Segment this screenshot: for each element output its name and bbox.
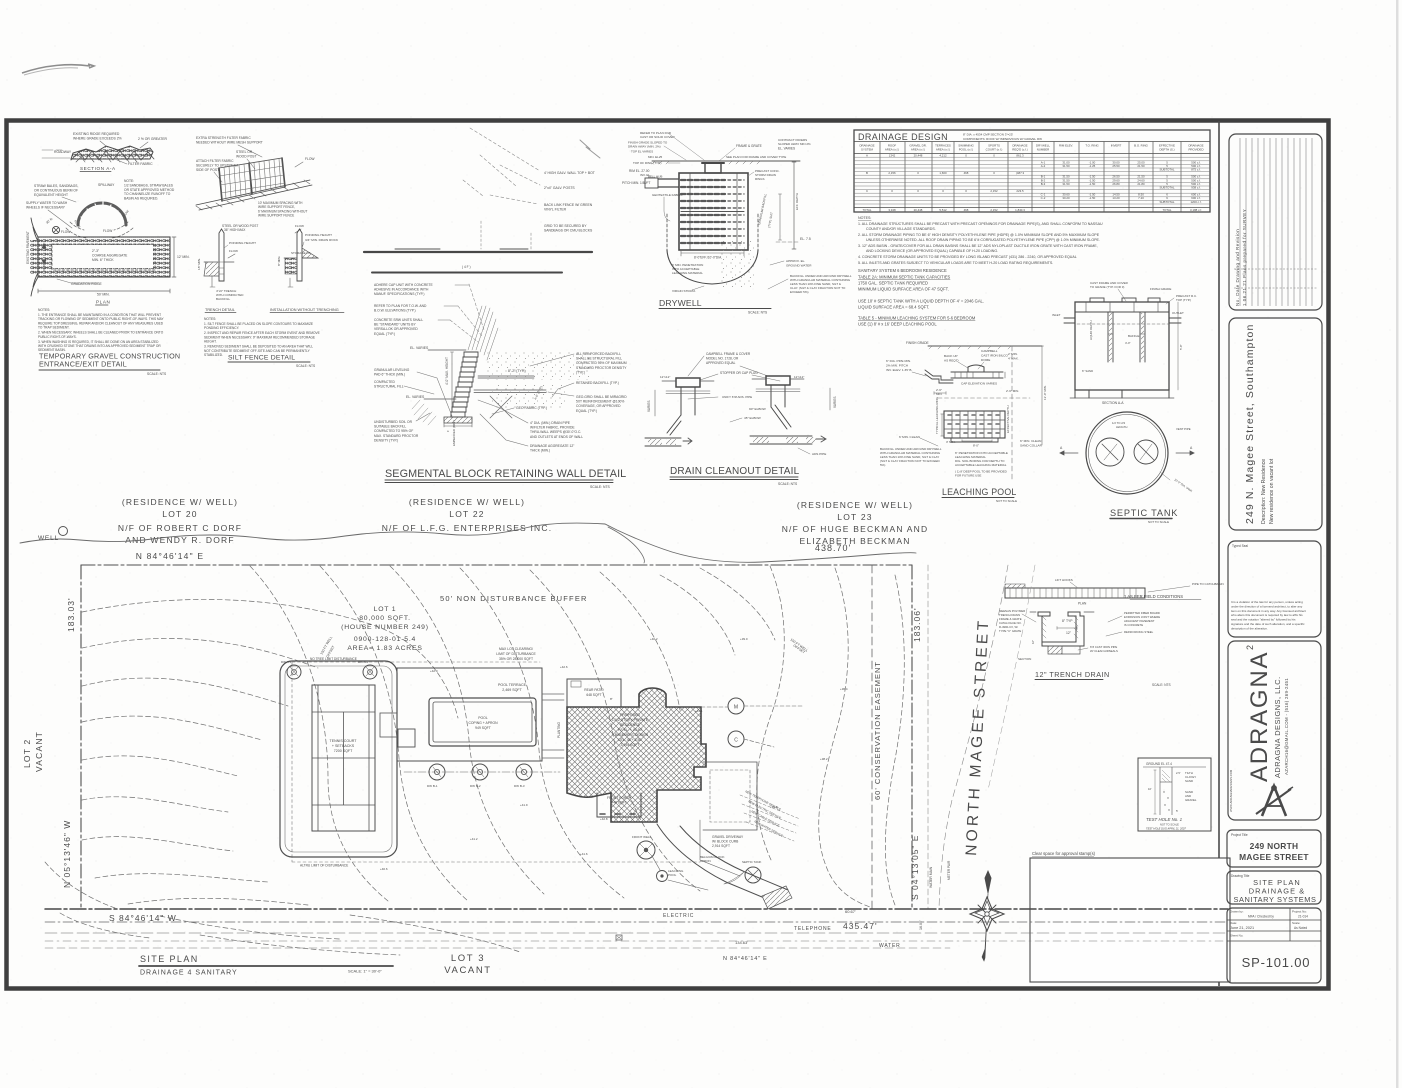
- soil hatch left of wall base: [412, 400, 436, 425]
- svg-text:DEPTH (S.): DEPTH (S.): [1159, 148, 1174, 152]
- svg-text:ACCEPTABLE LEACHING MATERIAL: ACCEPTABLE LEACHING MATERIAL: [955, 463, 1007, 467]
- svg-text:ATTACH FILTER FABRIC: ATTACH FILTER FABRIC: [196, 159, 234, 163]
- property boundary north: [81, 564, 912, 566]
- svg-text:249 NORTH: 249 NORTH: [1250, 841, 1299, 851]
- svg-text:MANUF. SPECIFICATIONS (TYP.): MANUF. SPECIFICATIONS (TYP.): [374, 292, 424, 296]
- svg-text:GEO-GRID SHALL BE MIRAGRID: GEO-GRID SHALL BE MIRAGRID: [576, 395, 627, 399]
- svg-text:1 AS PER FIELD CONDITIONS: 1 AS PER FIELD CONDITIONS: [1124, 594, 1183, 599]
- svg-text:UNIFY 6"Ø ADS. PIPE: UNIFY 6"Ø ADS. PIPE: [722, 395, 752, 399]
- svg-text:Typed Seal: Typed Seal: [1232, 544, 1248, 548]
- svg-text:LIMIT OF DISTURBANCE: LIMIT OF DISTURBANCE: [496, 652, 536, 656]
- svg-text:+ BASEMENT DESIGN: + BASEMENT DESIGN: [612, 733, 649, 737]
- wash rack circle: [52, 226, 59, 233]
- svg-text:SILT FENCE DETAIL: SILT FENCE DETAIL: [228, 355, 295, 362]
- svg-text:COMPACTED TO 95% OF: COMPACTED TO 95% OF: [374, 429, 413, 433]
- svg-text:GROUND WATER: GROUND WATER: [786, 263, 812, 267]
- front porch: [597, 793, 641, 817]
- svg-text:SECTION A-A: SECTION A-A: [1102, 401, 1124, 405]
- svg-text:REINFORCING STEEL: REINFORCING STEEL: [1124, 630, 1154, 634]
- svg-text:SEPTIC TANK: SEPTIC TANK: [742, 860, 761, 864]
- svg-text:BASIN AS REQUIRED.: BASIN AS REQUIRED.: [124, 197, 158, 201]
- svg-text:2,156: 2,156: [888, 171, 896, 175]
- svg-text:COMPACTED: COMPACTED: [374, 380, 395, 384]
- svg-text:PLAN: PLAN: [96, 300, 110, 305]
- fence leader dashes: [463, 128, 540, 204]
- svg-text:949 SQFT: 949 SQFT: [475, 726, 491, 730]
- svg-text:OR CONTINUOUS BERM OF: OR CONTINUOUS BERM OF: [34, 188, 78, 192]
- svg-text:COVERAGE, OR APPROVED: COVERAGE, OR APPROVED: [576, 404, 621, 408]
- svg-text:GEO FABRIC (TYP.): GEO FABRIC (TYP.): [516, 406, 547, 410]
- svg-text:(RESIDENCE W/ WELL): (RESIDENCE W/ WELL): [409, 497, 525, 507]
- svg-text:CEL. 48 + 2.50': CEL. 48 + 2.50': [618, 738, 642, 742]
- svg-text:(HOUSE NUMBER 249): (HOUSE NUMBER 249): [341, 624, 429, 631]
- svg-text:TOTAL: TOTAL: [1162, 208, 1171, 212]
- svg-text:AND LOCKING DEVICE (OR APPROVE: AND LOCKING DEVICE (OR APPROVED EQUAL) C…: [866, 249, 998, 253]
- svg-text:LOT 2: LOT 2: [22, 739, 32, 768]
- svg-text:INV. ELEV. 1.35' B.: INV. ELEV. 1.35' B.: [886, 368, 912, 372]
- svg-text:DRYWELL: DRYWELL: [659, 298, 702, 308]
- svg-text:USE (1) 8' # x 16' DEEP LEACHI: USE (1) 8' # x 16' DEEP LEACHING POOL: [858, 322, 937, 327]
- svg-text:TYPICAL LEACHING RING: TYPICAL LEACHING RING: [935, 396, 939, 434]
- svg-text:NOTE:: NOTE:: [124, 179, 134, 183]
- svg-text:Project Title: Project Title: [1231, 833, 1248, 837]
- svg-text:12": 12": [1066, 631, 1072, 635]
- water service rotated labels SE: [745, 789, 784, 838]
- A-compass logo: [1256, 786, 1293, 816]
- svg-text:134.63': 134.63': [735, 940, 748, 945]
- svg-text:80,000 SQFT.: 80,000 SQFT.: [359, 615, 411, 622]
- svg-text:SAND COLLAR: SAND COLLAR: [1020, 443, 1043, 447]
- svg-text:C: C: [734, 738, 738, 744]
- svg-text:TOP OF RING (TYP.): TOP OF RING (TYP.): [633, 161, 662, 165]
- svg-text:EL. 7.5: EL. 7.5: [800, 237, 811, 241]
- svg-text:+41.2: +41.2: [470, 837, 478, 841]
- gradation ridge leader: [57, 279, 98, 283]
- svg-text:RINGS: RINGS: [755, 177, 765, 181]
- svg-text:Date:: Date:: [1230, 921, 1237, 925]
- svg-text:REFER TO PLAN FOR T.O.W. AND: REFER TO PLAN FOR T.O.W. AND: [374, 304, 427, 308]
- svg-text:(RESIDENCE W/ WELL): (RESIDENCE W/ WELL): [797, 500, 913, 510]
- svg-text:Drawn by:: Drawn by:: [1230, 910, 1244, 914]
- leaching rings grid: [944, 411, 1005, 438]
- svg-text:VENT PIPE: VENT PIPE: [1176, 427, 1191, 431]
- svg-text:50' MIN.: 50' MIN.: [97, 293, 110, 297]
- svg-text:ADRAGNA DESIGNS, LLC.: ADRAGNA DESIGNS, LLC.: [1273, 676, 1282, 778]
- svg-text:BAFFLE: BAFFLE: [1128, 334, 1139, 338]
- svg-text:SEE PLAN FOR FRAME AND COVER T: SEE PLAN FOR FRAME AND COVER TYPE: [726, 155, 786, 159]
- svg-text:+ SETBACKS: + SETBACKS: [332, 744, 355, 748]
- svg-text:POOL (s.f.): POOL (s.f.): [959, 148, 974, 152]
- svg-text:NOT TO SCALE: NOT TO SCALE: [1160, 823, 1179, 827]
- svg-text:3,188 c.f.: 3,188 c.f.: [1190, 208, 1202, 212]
- svg-text:30.20: 30.20: [1062, 196, 1070, 200]
- svg-text:1,660: 1,660: [939, 171, 947, 175]
- svg-text:REAR PATIO: REAR PATIO: [584, 688, 604, 692]
- svg-text:SP-101.00: SP-101.00: [1242, 955, 1311, 970]
- contour curves west: [45, 566, 904, 955]
- svg-text:8'-0": 8'-0": [973, 444, 979, 448]
- height dim left: [450, 352, 453, 412]
- svg-text:W/ CLEAN AIRSEALS: W/ CLEAN AIRSEALS: [1090, 649, 1118, 653]
- svg-text:SCALE: NTS: SCALE: NTS: [778, 482, 798, 486]
- svg-text:Drawing Title: Drawing Title: [1231, 874, 1250, 878]
- svg-text:TO GRADE (TYP. FOR 3): TO GRADE (TYP. FOR 3): [1090, 285, 1124, 289]
- svg-text:INVERT: INVERT: [1111, 144, 1122, 148]
- svg-text:LOT 23: LOT 23: [837, 512, 872, 522]
- inlet/outlet pipes: [1064, 318, 1075, 323]
- svg-text:938 c.f.: 938 c.f.: [1191, 185, 1201, 189]
- cap hatch above wall: [468, 306, 498, 360]
- svg-text:RESIDENCE: RESIDENCE: [620, 723, 641, 727]
- svg-text:5'-8": 5'-8": [1179, 344, 1183, 350]
- right cleanout assembly: [766, 376, 790, 385]
- svg-text:MIN.: MIN.: [936, 392, 942, 396]
- svg-text:2"x4" GALV. POSTS: 2"x4" GALV. POSTS: [544, 186, 575, 190]
- dashed line: [938, 397, 1030, 399]
- lower rule line: [372, 272, 562, 274]
- dome riser: [968, 365, 984, 372]
- apron: [762, 886, 792, 909]
- svg-text:Sheet No.: Sheet No.: [1230, 934, 1244, 938]
- svg-text:DRAINAGE 4 SANITARY: DRAINAGE 4 SANITARY: [140, 970, 238, 977]
- svg-text:2,152: 2,152: [990, 189, 998, 193]
- svg-text:+40.6: +40.6: [380, 867, 388, 871]
- svg-text:As Noted: As Noted: [1294, 926, 1307, 930]
- svg-text:5%): 5%): [880, 463, 885, 467]
- svg-text:1342: 1342: [889, 153, 896, 157]
- svg-text:who alters this document is re: who alters this document is required by …: [1231, 613, 1303, 617]
- 50' min dimension: [38, 289, 170, 293]
- svg-text:APPROX. EL.: APPROX. EL.: [786, 259, 805, 263]
- svg-text:SUITABLE BACKFILL: SUITABLE BACKFILL: [374, 425, 406, 429]
- svg-text:-1.25: -1.25: [1089, 164, 1096, 168]
- svg-text:OR STATE APPROVED METHOD: OR STATE APPROVED METHOD: [124, 188, 175, 192]
- svg-text:SECTION: SECTION: [1018, 657, 1031, 661]
- svg-text:438.70': 438.70': [815, 543, 851, 553]
- svg-text:LEACHING MATERIAL: LEACHING MATERIAL: [672, 271, 703, 275]
- svg-text:VARIES: VARIES: [647, 401, 651, 412]
- svg-text:SUBTOTAL: SUBTOTAL: [1160, 185, 1175, 189]
- svg-text:+39.0: +39.0: [740, 637, 748, 641]
- svg-text:+42.6: +42.6: [560, 665, 568, 669]
- svg-text:ADHERE CAP UNIT WITH CONCRETE: ADHERE CAP UNIT WITH CONCRETE: [374, 283, 433, 287]
- svg-text:A: A: [866, 153, 868, 157]
- dome bottom: [667, 250, 758, 284]
- svg-text:EL. VARIES: EL. VARIES: [410, 346, 429, 350]
- plan gravel pad: [38, 237, 170, 277]
- svg-text:THRU-WALL WEEPS @30'-0"O.C.: THRU-WALL WEEPS @30'-0"O.C.: [530, 430, 581, 434]
- svg-text:N/F OF ROBERT C DORF: N/F OF ROBERT C DORF: [118, 523, 242, 533]
- svg-text:SEDIMENT WHEN NECESSARY. 9" MA: SEDIMENT WHEN NECESSARY. 9" MAXIMUM RECO…: [204, 335, 315, 339]
- bottom pocket: [1048, 646, 1062, 654]
- flow arrows dashes: [70, 222, 128, 230]
- svg-text:T.O. RING: T.O. RING: [1085, 144, 1099, 148]
- inlet pipe stepped: [925, 370, 953, 383]
- svg-text:60' CONSERVATION EASEMENT: 60' CONSERVATION EASEMENT: [873, 661, 882, 800]
- svg-text:448 SQFT: 448 SQFT: [611, 801, 626, 805]
- svg-text:LOT 3: LOT 3: [451, 953, 485, 964]
- svg-text:PONDING HEIGHT: PONDING HEIGHT: [305, 233, 332, 237]
- svg-text:EXTRA STRENGTH FILTER FABRIC: EXTRA STRENGTH FILTER FABRIC: [196, 136, 251, 140]
- project title block: [1227, 830, 1321, 867]
- svg-text:EXISTING RIDGE REQUIRED: EXISTING RIDGE REQUIRED: [73, 132, 120, 136]
- svg-text:50' NON DISTURBANCE BUFFER: 50' NON DISTURBANCE BUFFER: [440, 594, 588, 603]
- inlet pipe left: [658, 179, 679, 187]
- svg-text:5,512: 5,512: [939, 208, 947, 212]
- pool: [429, 698, 536, 746]
- svg-text:CAMPBELL: CAMPBELL: [981, 349, 998, 353]
- svg-text:8" TYP: 8" TYP: [1062, 619, 1073, 623]
- mid drywell circles row: [429, 764, 445, 780]
- svg-text:468: 468: [964, 171, 969, 175]
- svg-text:WWW.ADRAGNADESIGNS.COM: WWW.ADRAGNADESIGNS.COM: [1229, 769, 1233, 812]
- svg-text:RETAINED BACKFILL (TYP.): RETAINED BACKFILL (TYP.): [576, 381, 619, 385]
- svg-text:N 84°46'14" E: N 84°46'14" E: [723, 956, 768, 962]
- svg-text:MIN. 6" THICK: MIN. 6" THICK: [92, 258, 114, 262]
- svg-text:NOT TO SCALE: NOT TO SCALE: [1148, 520, 1169, 524]
- svg-text:RIM ELEV.: RIM ELEV.: [1059, 144, 1073, 148]
- svg-text:ADRAGNA: ADRAGNA: [1246, 651, 1273, 782]
- leader lines to cap: [450, 284, 484, 342]
- svg-text:SCALE: NTS: SCALE: NTS: [748, 311, 768, 315]
- svg-text:8" DIA. x 4534 CMP SECTION: 8" DIA. x 4534 CMP SECTION 3"=25': [963, 133, 1014, 137]
- svg-text:INLET: INLET: [1052, 313, 1061, 317]
- svg-text:+36.4: +36.4: [840, 687, 848, 691]
- svg-text:SUBTOTAL: SUBTOTAL: [1160, 168, 1175, 172]
- svg-text:F.F EL. + 43.50': F.F EL. + 43.50': [618, 728, 643, 732]
- svg-text:5XT REINFORCEMENT @100%: 5XT REINFORCEMENT @100%: [576, 400, 624, 404]
- svg-text:MAX. STANDARD PROCTOR: MAX. STANDARD PROCTOR: [374, 434, 419, 438]
- svg-text:PONDING EFFICIENCY.: PONDING EFFICIENCY.: [204, 326, 240, 330]
- svg-text:MAX LOT CLEARING/: MAX LOT CLEARING/: [499, 647, 533, 651]
- bottom dim: [681, 250, 744, 256]
- svg-text:COUNTY AND/OR VILLAGE STANDARD: COUNTY AND/OR VILLAGE STANDARDS.: [866, 227, 936, 231]
- svg-text:WHERE GRADE EXCEEDS 2%: WHERE GRADE EXCEEDS 2%: [73, 137, 122, 141]
- svg-text:16.00': 16.00': [919, 920, 923, 930]
- svg-text:FLOW: FLOW: [305, 157, 315, 161]
- right dimension line: [792, 162, 796, 249]
- svg-text:EL. VARIES: EL. VARIES: [778, 147, 795, 151]
- side dims: [1177, 302, 1179, 390]
- svg-text:(SILT & CLAY FRACTION NOT TO E: (SILT & CLAY FRACTION NOT TO EXCEED: [880, 459, 940, 463]
- svg-text:TENNIS COURT: TENNIS COURT: [330, 739, 358, 743]
- svg-text:DW B-1: DW B-1: [427, 784, 438, 788]
- svg-text:N 84°46'14" E: N 84°46'14" E: [136, 551, 205, 561]
- south boundary dash-dot bold: [45, 908, 1228, 910]
- title block separator: [1218, 121, 1220, 986]
- liquid line: [1077, 323, 1169, 325]
- svg-text:MINIMUM LIQUID SURFACE AREA OF: MINIMUM LIQUID SURFACE AREA OF 47 SQFT.: [858, 287, 949, 292]
- top frame/grate: [705, 163, 721, 173]
- geogrid lines: [474, 390, 546, 393]
- driveway: [657, 824, 762, 897]
- svg-text:W/FILTER FABRIC, PROVIDE: W/FILTER FABRIC, PROVIDE: [530, 426, 575, 430]
- svg-text:THICK (MIN.): THICK (MIN.): [530, 449, 550, 453]
- svg-text:4,212: 4,212: [939, 153, 947, 157]
- svg-text:seal and the notation "altered: seal and the notation "altered by" follo…: [1231, 618, 1296, 622]
- svg-text:VACANT: VACANT: [444, 965, 491, 976]
- svg-text:183.03': 183.03': [66, 597, 76, 632]
- svg-text:WIRE SUPPORT FENCE: WIRE SUPPORT FENCE: [258, 214, 294, 218]
- section cut arrows: [42, 243, 46, 271]
- wall stepped blocks upper: [458, 352, 478, 387]
- svg-text:+38.2: +38.2: [820, 757, 828, 761]
- svg-text:21.50: 21.50: [1137, 164, 1145, 168]
- fabric panel with vertical hatch: [219, 158, 285, 201]
- svg-text:TEST HOLE DUG APRIL 21, 2: TEST HOLE DUG APRIL 21, 2007: [1146, 827, 1186, 831]
- svg-text:AREA (s.f.): AREA (s.f.): [936, 148, 950, 152]
- svg-text:12" TRENCH DRAIN: 12" TRENCH DRAIN: [1035, 670, 1110, 679]
- svg-text:SCALE: 1" = 30'-0": SCALE: 1" = 30'-0": [348, 969, 382, 974]
- inner manholes: [1096, 438, 1124, 466]
- svg-text:1750 GAL. SEPTIC TANK REQUIRED: 1750 GAL. SEPTIC TANK REQUIRED: [858, 281, 928, 286]
- svg-text:Description: New Residence: Description: New Residence: [1261, 459, 1267, 524]
- svg-text:DW B-2: DW B-2: [470, 784, 481, 788]
- svg-text:LOT 20: LOT 20: [162, 509, 197, 519]
- svg-text:FRONT WELL: FRONT WELL: [632, 835, 652, 839]
- svg-text:2.5': 2.5': [1176, 771, 1181, 775]
- svg-text:WATER MAIN: WATER MAIN: [929, 866, 933, 888]
- svg-text:4. CONCRETE STORM DRAINAGE: 4. CONCRETE STORM DRAINAGE UNITS TO BE P…: [858, 255, 1077, 259]
- svg-text:DRAINAGE DESIGN: DRAINAGE DESIGN: [858, 132, 948, 142]
- property boundary west: [80, 565, 82, 909]
- svg-text:468: 468: [964, 208, 969, 212]
- svg-text:PUBLIC RIGHT-OF-WAYS.: PUBLIC RIGHT-OF-WAYS.: [38, 335, 77, 339]
- svg-text:VERSA-LOK OR APPROVED: VERSA-LOK OR APPROVED: [374, 327, 418, 331]
- svg-text:WHEELS IF NECESSARY: WHEELS IF NECESSARY: [26, 205, 66, 209]
- svg-text:DW A-1: DW A-1: [281, 660, 292, 664]
- right horizontal pipe w/ hatch: [750, 436, 812, 444]
- svg-text:TABLE 2A: MINIMUM SEPTIC TANK: TABLE 2A: MINIMUM SEPTIC TANK CAPACITIES: [858, 275, 951, 280]
- svg-text:25.50: 25.50: [1112, 164, 1120, 168]
- svg-text:AREA= 1.83 ACRES: AREA= 1.83 ACRES: [347, 645, 422, 652]
- svg-text:B.O.W. ELEVATIONS (TYP.): B.O.W. ELEVATIONS (TYP.): [374, 309, 416, 313]
- svg-text:20,448: 20,448: [914, 208, 923, 212]
- well circle left: [59, 527, 68, 536]
- left horizontal pipe w/ hatch: [645, 438, 681, 446]
- svg-text:875 c.f.: 875 c.f.: [1191, 168, 1201, 172]
- pool terrace: [397, 668, 542, 761]
- svg-text:FLOW: FLOW: [229, 249, 238, 253]
- svg-text:SANITARY SYSTEMS: SANITARY SYSTEMS: [1233, 895, 1316, 904]
- scan edge artifact right: [1396, 0, 1399, 1088]
- svg-text:GRID TO BE SECURED BY: GRID TO BE SECURED BY: [544, 224, 587, 228]
- svg-text:FRONT PORCH: FRONT PORCH: [607, 796, 632, 800]
- section U channel: [1038, 612, 1084, 646]
- svg-text:TRENCH DETAIL: TRENCH DETAIL: [205, 308, 235, 312]
- svg-text:INSTALLATION WITHOUT TRENCHING: INSTALLATION WITHOUT TRENCHING: [270, 308, 339, 312]
- svg-text:PAD 6" THICK (MIN.): PAD 6" THICK (MIN.): [374, 373, 405, 377]
- section A-A mound hatch: [71, 146, 153, 159]
- svg-text:under the direction of a licen: under the direction of a licensed archit…: [1231, 604, 1303, 608]
- base pad: [444, 417, 472, 423]
- svg-text:(487.3: (487.3: [1016, 171, 1025, 175]
- svg-text:2' MIN.: 2' MIN.: [1008, 352, 1018, 356]
- patio connector: [542, 694, 564, 758]
- svg-text:AZARCH16@GMAIL.COM - (516) 269: AZARCH16@GMAIL.COM - (516) 269-2451: [1284, 678, 1289, 775]
- fence perspective: ground line: [196, 180, 312, 210]
- svg-text:GROUND EL 47.4: GROUND EL 47.4: [1146, 762, 1172, 766]
- svg-text:COPING + APRON: COPING + APRON: [468, 721, 498, 725]
- svg-text:STRAW BALES, SANDBAGS,: STRAW BALES, SANDBAGS,: [34, 184, 78, 188]
- svg-text:C-2: C-2: [1041, 196, 1046, 200]
- plan view circle: [1086, 412, 1168, 494]
- svg-text:DW B-3: DW B-3: [514, 784, 525, 788]
- spa square: [398, 729, 415, 747]
- svg-text:ELECTRIC: ELECTRIC: [663, 913, 694, 919]
- svg-text:C: C: [866, 189, 868, 193]
- svg-text:SHALL BE STRUCTURAL FILL: SHALL BE STRUCTURAL FILL: [576, 357, 622, 361]
- svg-text:GRANULAR LEVELING: GRANULAR LEVELING: [374, 368, 410, 372]
- svg-text:NOTES:: NOTES:: [204, 317, 216, 321]
- svg-text:ADHESIVE IN ACCORDANCE WITH: ADHESIVE IN ACCORDANCE WITH: [374, 288, 429, 292]
- svg-text:POOL: POOL: [668, 873, 677, 877]
- svg-text:SCALE: NTS: SCALE: NTS: [147, 372, 167, 376]
- svg-text:CAP ELEVATION VARIES: CAP ELEVATION VARIES: [961, 382, 997, 386]
- svg-text:BE "STANDARD" UNITS BY: BE "STANDARD" UNITS BY: [374, 323, 416, 327]
- svg-text:STABILIZED.: STABILIZED.: [204, 353, 223, 357]
- svg-text:2: 2: [1245, 645, 1255, 650]
- svg-text:A: A: [41, 270, 43, 274]
- gas valve square: [616, 935, 622, 940]
- svg-text:13'-0" MIN.: 13'-0" MIN.: [1043, 385, 1047, 400]
- svg-text:EXCEED 5%): EXCEED 5%): [790, 290, 809, 294]
- svg-text:+42.8: +42.8: [600, 817, 608, 821]
- svg-text:EFF. DEPTH: EFF. DEPTH: [795, 193, 799, 210]
- main cylinder: [679, 173, 748, 250]
- svg-text:2,152: 2,152: [990, 208, 998, 212]
- svg-text:HEIGHT.: HEIGHT.: [204, 340, 217, 344]
- svg-text:1,840.3: 1,840.3: [1015, 208, 1025, 212]
- svg-text:+40.2: +40.2: [650, 637, 658, 641]
- svg-text:CONCRETE SRW UNITS SHALL: CONCRETE SRW UNITS SHALL: [374, 318, 423, 322]
- svg-text:861.3: 861.3: [1016, 153, 1024, 157]
- svg-text:CAST IRON BILCO: CAST IRON BILCO: [981, 353, 1009, 357]
- svg-text:DOME: DOME: [981, 358, 990, 362]
- svg-text:7200 SQFT: 7200 SQFT: [334, 749, 353, 753]
- covers on top: [1090, 298, 1104, 302]
- svg-text:PITCH MIN. 1/8"/FT: PITCH MIN. 1/8"/FT: [622, 181, 650, 185]
- svg-text:LIQUID DEPTH: LIQUID DEPTH: [1089, 320, 1093, 340]
- svg-text:60.67': 60.67': [845, 909, 856, 914]
- svg-text:SCALE: NTS: SCALE: NTS: [296, 364, 316, 368]
- svg-text:435.47': 435.47': [843, 921, 878, 931]
- svg-text:ENTRANCE/EXIT DETAIL: ENTRANCE/EXIT DETAIL: [39, 360, 127, 369]
- stipple backfill: [485, 352, 590, 380]
- svg-text:AREA (s.f.): AREA (s.f.): [885, 148, 899, 152]
- svg-text:FLOW: FLOW: [295, 224, 304, 228]
- property boundary east: [911, 565, 913, 909]
- svg-text:ALTRU LIMIT OF DISTURBANCE: ALTRU LIMIT OF DISTURBANCE: [300, 864, 348, 868]
- svg-text:WELL: WELL: [38, 535, 59, 542]
- svg-text:FINISH GRADE: FINISH GRADE: [1150, 287, 1171, 291]
- svg-text:PROVIDED: PROVIDED: [1188, 148, 1203, 152]
- pen squiggle mid sheet: [580, 140, 600, 158]
- svg-text:FRAME & GRATE: FRAME & GRATE: [736, 144, 762, 148]
- svg-text:No. Date Drawing and Rev: No. Date Drawing and Revision: [1235, 229, 1240, 306]
- road edge diagonals: [939, 565, 1008, 909]
- svg-text:183.06': 183.06': [912, 607, 922, 642]
- svg-text:3/4" MIN. DRAIN ROCK: 3/4" MIN. DRAIN ROCK: [305, 238, 339, 242]
- house text: [612, 713, 649, 747]
- svg-text:6' MIN. CLEAN: 6' MIN. CLEAN: [899, 435, 920, 439]
- svg-text:EL. VARIES: EL. VARIES: [406, 395, 425, 399]
- svg-text:+43.1: +43.1: [695, 709, 703, 713]
- svg-text:1200 c.f.: 1200 c.f.: [1190, 200, 1201, 204]
- svg-text:1/2 SANDBAGS, STRAW BALES: 1/2 SANDBAGS, STRAW BALES: [124, 183, 174, 187]
- svg-text:SAND: SAND: [1185, 779, 1193, 783]
- svg-text:It is a violation of the law f: It is a violation of the law for any per…: [1231, 600, 1303, 604]
